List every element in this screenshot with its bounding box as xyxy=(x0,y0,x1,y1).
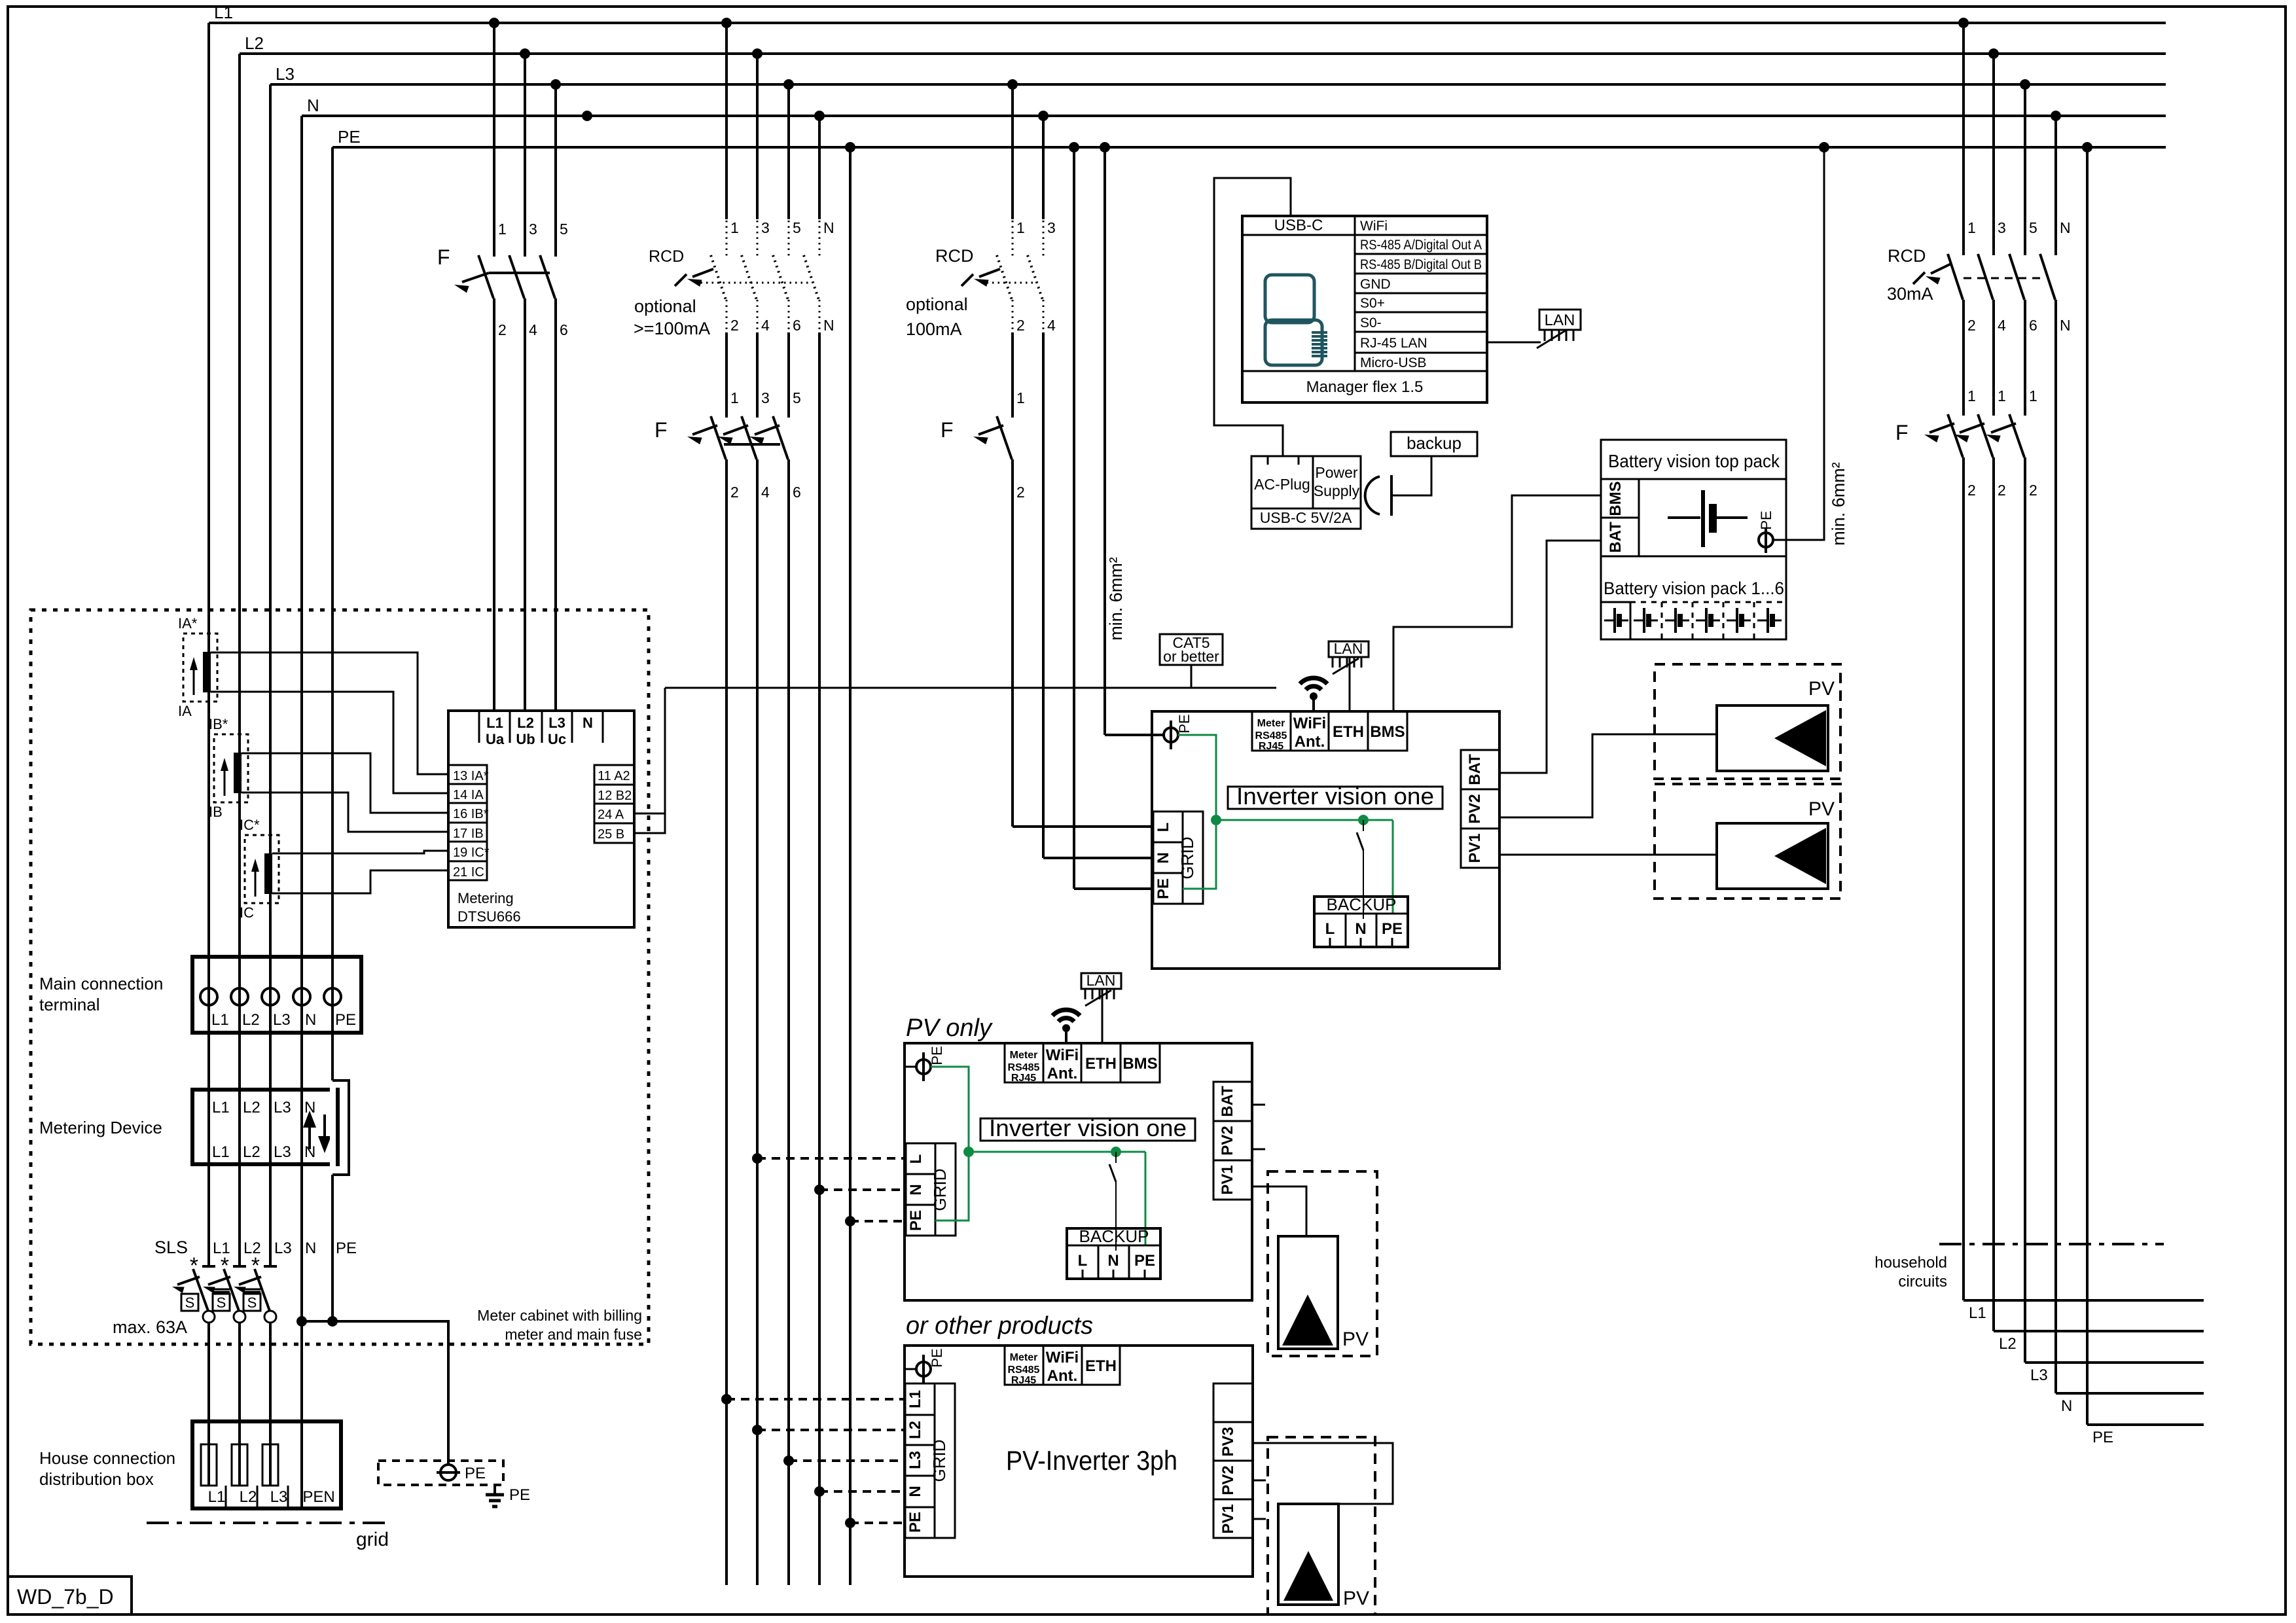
U3 PV-Inverter 3ph GRID cell L1 xyxy=(905,1383,935,1415)
current transformer IC dashed box xyxy=(245,835,279,903)
U2 Inverter vision one (PV only) GRID cell N xyxy=(906,1174,935,1205)
svg-text:5: 5 xyxy=(560,221,568,238)
F3 pole (terminals 1/2) xyxy=(997,416,1012,459)
svg-text:L3: L3 xyxy=(270,1488,288,1506)
svg-text:F: F xyxy=(1895,421,1909,444)
svg-text:2: 2 xyxy=(1016,317,1025,334)
wire battery PE to PE bus xyxy=(1773,147,1824,540)
bus N riser down to house connection box xyxy=(300,116,303,1508)
U2 Inverter vision one (PV only) terminal cell Meter RS485 RJ45 xyxy=(1005,1043,1043,1082)
svg-text:Supply: Supply xyxy=(1314,482,1360,499)
svg-text:1: 1 xyxy=(2029,387,2037,404)
Manager flex row RS-485 B/Digital Out B xyxy=(1355,273,1487,275)
F1 pole 3 (terminals 5/6) xyxy=(554,84,557,257)
RCD1 pole 3 (terminals 5/6) xyxy=(787,84,790,219)
U2 Inverter vision one (PV only) label box Inverter vision one xyxy=(980,1118,1195,1141)
svg-text:WiFi: WiFi xyxy=(1293,715,1326,732)
svg-text:optional: optional xyxy=(906,294,968,314)
svg-text:L2: L2 xyxy=(906,1421,924,1439)
SLS pole 2 actuator arrow xyxy=(208,1277,230,1285)
svg-text:N: N xyxy=(2060,219,2071,236)
svg-text:RS485: RS485 xyxy=(1008,1062,1040,1073)
svg-text:1: 1 xyxy=(1967,387,1976,404)
svg-text:1: 1 xyxy=(1967,219,1976,236)
svg-text:Meter cabinet with billing: Meter cabinet with billing xyxy=(477,1307,642,1324)
svg-text:DTSU666: DTSU666 xyxy=(457,908,521,925)
wire inverter PV1 to PV array 2 xyxy=(1499,854,1717,856)
wire RCD3 N output down to household circuits xyxy=(2054,300,2057,1393)
U1 Inverter vision one terminal cell ETH xyxy=(1329,711,1368,751)
Manager flex row GND xyxy=(1355,293,1487,294)
SLS switch pole L1 xyxy=(202,1265,215,1268)
house connection fuse L1 xyxy=(201,1444,217,1486)
AC plug prong ticks xyxy=(1267,456,1269,465)
U2 Inverter vision one (PV only) PE functional-earth clamp xyxy=(916,1060,931,1074)
PV array 4 (3ph) dashed box xyxy=(1268,1437,1375,1614)
household circuit branch PE xyxy=(2087,1423,2204,1426)
dashed wire N feeder to U2 GRID N xyxy=(819,1188,906,1191)
svg-text:12 B2: 12 B2 xyxy=(598,789,632,803)
PV array 3 (PV only) dashed box xyxy=(1268,1171,1377,1356)
junction dot PE/household xyxy=(2082,142,2092,152)
svg-text:PE: PE xyxy=(1382,920,1403,938)
svg-text:L2: L2 xyxy=(517,715,534,731)
wire metering 24 A to RS-485 link xyxy=(634,813,665,815)
svg-text:6: 6 xyxy=(2029,317,2037,334)
svg-text:2: 2 xyxy=(498,321,507,338)
PV array 4 module xyxy=(1278,1504,1338,1605)
F1 actuator arrow xyxy=(462,273,489,282)
svg-text:PV: PV xyxy=(1343,1588,1369,1609)
RCD1 pole 1 (terminals 1/2) xyxy=(725,23,728,219)
house connection fuse L2 xyxy=(232,1444,247,1486)
svg-text:BMS: BMS xyxy=(1122,1055,1157,1073)
svg-text:2: 2 xyxy=(2029,482,2037,499)
F2 pole 1 (terminals 1/2) xyxy=(711,416,726,459)
svg-text:WiFi: WiFi xyxy=(1360,219,1388,234)
svg-text:17 IB: 17 IB xyxy=(453,827,484,841)
wire F4 pole2 output to household L2 xyxy=(1992,457,1995,1331)
U3 PV-Inverter 3ph right cell PV2 xyxy=(1213,1461,1253,1499)
U2 Inverter vision one (PV only) BACKUP terminal ticks xyxy=(1082,1270,1084,1279)
svg-text:S0+: S0+ xyxy=(1360,296,1385,311)
svg-text:1: 1 xyxy=(1016,389,1025,406)
svg-text:or better: or better xyxy=(1163,648,1219,665)
SLS pole 1 contact circle xyxy=(203,1311,215,1323)
RCD2 pole 2 (terminals 3/4) xyxy=(1042,116,1045,219)
U1 Inverter vision one LAN connector box xyxy=(1329,641,1369,657)
svg-text:2: 2 xyxy=(730,317,739,334)
CAT5 or better box xyxy=(1160,634,1223,665)
main terminal circle at x=508 xyxy=(324,988,341,1005)
LAN connector box (manager) xyxy=(1539,310,1581,330)
U3 PV-Inverter 3ph PV1 stub xyxy=(1253,1518,1266,1520)
svg-text:Inverter vision one: Inverter vision one xyxy=(989,1115,1187,1141)
U3 PV-Inverter 3ph GRID cell N xyxy=(905,1476,935,1507)
U1 Inverter vision one backup transfer switch xyxy=(1363,820,1364,831)
svg-text:2: 2 xyxy=(1967,317,1976,334)
svg-text:4: 4 xyxy=(761,484,770,501)
bus L2 horizontal xyxy=(240,52,2166,55)
Battery assembly outer box xyxy=(1601,440,1786,639)
svg-text:Micro-USB: Micro-USB xyxy=(1360,355,1427,370)
svg-text:WiFi: WiFi xyxy=(1046,1349,1079,1366)
main terminal circle at x=366 xyxy=(231,988,248,1005)
wire RCD1 outputs to F2 inputs xyxy=(725,332,728,418)
RCD3 pole 4 (terminals N/N) xyxy=(2054,116,2057,255)
RCD1 trip arrow xyxy=(692,269,713,277)
U2 Inverter vision one (PV only) right cell PV1 xyxy=(1213,1160,1252,1200)
bus PE riser down to metering device bypass xyxy=(331,147,334,1080)
svg-text:BAT: BAT xyxy=(1219,1086,1236,1117)
junction dot L3/RCD2 xyxy=(1007,79,1018,90)
svg-text:Power: Power xyxy=(1315,464,1358,481)
F2 pole 1 actuator arrow xyxy=(692,425,717,435)
svg-text:4: 4 xyxy=(1047,317,1056,334)
house connection fuse L3 xyxy=(262,1444,278,1486)
svg-text:PV1: PV1 xyxy=(1219,1165,1236,1194)
svg-text:Ant.: Ant. xyxy=(1047,1367,1078,1385)
U1 Inverter vision one green PE wire to BACKUP PE xyxy=(1392,820,1394,914)
svg-text:RS485: RS485 xyxy=(1008,1364,1040,1376)
SLS pole 3 actuator arrow xyxy=(239,1277,261,1285)
svg-text:WD_7b_D: WD_7b_D xyxy=(17,1585,114,1609)
U1 Inverter vision one GRID cell L xyxy=(1153,811,1183,842)
svg-text:IA*: IA* xyxy=(178,615,198,632)
svg-text:SLS: SLS xyxy=(154,1238,188,1257)
wire RCD2 pole1 output to F3 xyxy=(1011,332,1014,418)
battery PE clamp xyxy=(1759,533,1773,547)
svg-text:ETH: ETH xyxy=(1333,723,1364,741)
svg-text:L1: L1 xyxy=(211,1011,229,1029)
svg-text:min. 6mm²: min. 6mm² xyxy=(1829,462,1848,546)
svg-text:PE: PE xyxy=(509,1486,530,1504)
U1 Inverter vision one wire LAN to ETH xyxy=(1349,657,1351,711)
bus L3 horizontal xyxy=(270,83,2166,86)
U2 Inverter vision one (PV only) BACKUP cell dividers xyxy=(1098,1245,1100,1279)
wire RCD2 pole2 (N) output down to inverter GRID N xyxy=(1042,332,1045,858)
svg-text:Main connection: Main connection xyxy=(39,974,163,993)
dashed wire L3 feeder to U3 GRID L3 xyxy=(789,1459,905,1462)
Manager flex row RJ-45 LAN xyxy=(1355,352,1487,354)
svg-text:GRID: GRID xyxy=(929,1440,949,1482)
svg-text:RJ45: RJ45 xyxy=(1011,1073,1036,1084)
U1 Inverter vision one right cell PV2 xyxy=(1461,789,1499,829)
U2 Inverter vision one (PV only) GRID cell PE xyxy=(906,1205,935,1236)
earth clamp PE circle xyxy=(440,1465,456,1480)
svg-text:PV only: PV only xyxy=(906,1014,993,1042)
svg-text:L: L xyxy=(1078,1252,1088,1270)
RCD2 trip tick xyxy=(961,274,973,286)
svg-text:L3: L3 xyxy=(274,1099,291,1116)
U1 Inverter vision one green junction dot left xyxy=(1211,815,1221,825)
U2 Inverter vision one (PV only) wire LAN to ETH xyxy=(1102,989,1103,1043)
F2 pole 3 actuator arrow xyxy=(755,425,780,435)
battery pack cell symbol 4 xyxy=(1696,620,1705,622)
svg-text:L1: L1 xyxy=(212,1143,230,1161)
U3 PV-Inverter 3ph PE functional-earth clamp xyxy=(916,1362,931,1376)
U1 Inverter vision one BACKUP terminal block xyxy=(1314,897,1408,947)
svg-text:13 IA*: 13 IA* xyxy=(453,769,489,783)
PE bypass around metering device xyxy=(332,1080,349,1175)
svg-text:max. 63A: max. 63A xyxy=(113,1317,187,1337)
svg-text:Battery vision top pack: Battery vision top pack xyxy=(1608,451,1780,471)
battery top pack bottom divider xyxy=(1601,556,1786,558)
svg-text:2: 2 xyxy=(730,484,739,501)
svg-text:L1: L1 xyxy=(486,715,503,731)
Manager flex 1.5 outer box xyxy=(1242,216,1487,402)
RCD1 linkage dotted line xyxy=(695,282,812,284)
wire CT IB to metering 17 xyxy=(242,793,448,832)
svg-text:L3: L3 xyxy=(273,1011,291,1029)
svg-text:N: N xyxy=(305,1240,316,1257)
bus N horizontal xyxy=(302,115,2166,117)
svg-text:N: N xyxy=(1107,1252,1119,1270)
current transformer IA dashed box xyxy=(183,633,217,702)
battery terminal cell BMS xyxy=(1601,479,1639,518)
svg-text:Meter: Meter xyxy=(1010,1352,1038,1363)
F4 pole 1 (terminals 1/2) xyxy=(1948,414,1963,457)
inverter U3 PV-Inverter 3ph box xyxy=(905,1346,1253,1577)
SLS pole 3 contact circle xyxy=(264,1311,276,1323)
F4 pole 3 actuator arrow xyxy=(1991,423,2016,433)
svg-text:PV2: PV2 xyxy=(1219,1126,1236,1155)
U2 Inverter vision one (PV only) WiFi antenna symbol xyxy=(1065,1031,1067,1043)
wire PE down to bond point xyxy=(331,1175,334,1321)
bus L2 riser down to SLS xyxy=(238,54,241,1266)
svg-text:6: 6 xyxy=(560,321,568,338)
svg-text:3: 3 xyxy=(1998,219,2006,236)
wire USB-C power loop (manager to power supply) xyxy=(1214,178,1291,456)
current transformer IB core bar xyxy=(234,753,242,793)
wire RS-485 meter link (metering to inverter) xyxy=(665,687,1276,689)
U1 Inverter vision one right cell BAT xyxy=(1461,750,1499,789)
junction dot L2/RCD1 xyxy=(752,48,762,59)
svg-text:PEN: PEN xyxy=(302,1488,334,1506)
svg-text:S: S xyxy=(217,1294,226,1311)
junction dot feeder N / U2 N xyxy=(814,1185,825,1195)
svg-text:PE: PE xyxy=(1176,714,1193,733)
wire metering 25 B to RS-485 link xyxy=(634,688,665,833)
svg-text:30mA: 30mA xyxy=(1887,284,1933,304)
battery pack dashed divider 1 xyxy=(1661,602,1663,639)
battery cell symbol (top pack) xyxy=(1668,516,1700,519)
wire SLS outputs to house connection box xyxy=(207,1323,210,1486)
Battery vision top pack header divider xyxy=(1601,478,1786,480)
U2 Inverter vision one (PV only) green PE wire to BACKUP PE xyxy=(1145,1152,1147,1245)
svg-text:11 A2: 11 A2 xyxy=(598,769,630,783)
svg-text:5: 5 xyxy=(2029,219,2037,236)
Metering Device box xyxy=(192,1090,338,1164)
battery terminal cell BAT xyxy=(1601,518,1639,556)
F1 pole 1 (terminals 1/2) xyxy=(493,23,495,257)
svg-text:PV1: PV1 xyxy=(1466,833,1484,863)
svg-text:Ub: Ub xyxy=(516,731,535,747)
Manager flex row WiFi xyxy=(1355,234,1487,236)
junction dot L3/RCD30 xyxy=(2020,79,2030,90)
PV array 2 (dashed box) xyxy=(1655,784,1840,899)
SLS linkage double lines xyxy=(213,1289,230,1291)
Manager flex footer divider xyxy=(1242,370,1487,372)
svg-text:BAT: BAT xyxy=(1607,522,1624,553)
U3 PV-Inverter 3ph GRID cell L3 xyxy=(905,1445,935,1476)
svg-text:1: 1 xyxy=(730,219,739,236)
F2 pole 2 actuator arrow xyxy=(723,425,748,435)
svg-text:meter and main fuse: meter and main fuse xyxy=(505,1326,642,1343)
SLS switch pole L3 xyxy=(264,1265,277,1268)
svg-text:24 A: 24 A xyxy=(598,808,624,822)
dashed wire L2 feeder to U3 GRID L2 xyxy=(757,1429,905,1431)
junction dot L1/RCD30 xyxy=(1958,18,1969,28)
wire inverter PV2 to PV array 1 xyxy=(1499,734,1717,817)
wire U3 PV3 to PV array 4 xyxy=(1253,1443,1393,1504)
LAN connector comb (manager) xyxy=(1544,330,1546,341)
PV array 3 module xyxy=(1278,1236,1338,1349)
svg-text:PE: PE xyxy=(2092,1429,2113,1446)
svg-text:or other products: or other products xyxy=(906,1312,1093,1340)
U2 Inverter vision one (PV only) green PE wire horizontal xyxy=(969,1151,1145,1153)
svg-text:IB: IB xyxy=(209,804,223,820)
svg-text:>=100mA: >=100mA xyxy=(634,319,710,338)
svg-text:1: 1 xyxy=(730,389,739,406)
F2 pole 2 (terminals 3/4) xyxy=(742,416,757,459)
bus L1 riser down to SLS xyxy=(207,23,210,1266)
Manager flex row S0- xyxy=(1355,331,1487,333)
U1 Inverter vision one green PE wire horizontal xyxy=(1216,819,1393,821)
wire CT IC to metering 21 xyxy=(272,870,448,893)
junction dot PE/feeder xyxy=(845,142,855,152)
svg-text:N: N xyxy=(823,219,834,236)
U2 Inverter vision one (PV only) BAT stub xyxy=(1252,1104,1265,1106)
wire RCD1 N output down to PV inverters xyxy=(818,332,821,1585)
bus L1 horizontal xyxy=(209,22,2166,24)
U2 Inverter vision one (PV only) terminal cell WiFi Ant. xyxy=(1043,1043,1081,1082)
wire U2 PV1 to PV array 3 xyxy=(1252,1186,1306,1236)
svg-text:BACKUP: BACKUP xyxy=(1327,895,1397,914)
svg-text:USB-C: USB-C xyxy=(1274,217,1323,234)
svg-text:Uc: Uc xyxy=(548,731,566,747)
wire RCD3 outputs to F4 xyxy=(1962,300,1965,416)
U2 Inverter vision one (PV only) green junction dot right xyxy=(1111,1147,1121,1157)
Manager flex column divider xyxy=(1354,216,1356,371)
svg-text:25 B: 25 B xyxy=(598,827,624,842)
svg-text:100mA: 100mA xyxy=(906,319,962,339)
Manager flex row RS-485 A/Digital Out A xyxy=(1355,253,1487,255)
wire RJ-45 LAN to LAN connector xyxy=(1487,342,1541,344)
SLS pole 1 actuator arrow xyxy=(177,1277,200,1285)
junction dot L3/F1 xyxy=(550,79,561,90)
svg-text:N: N xyxy=(907,1184,925,1195)
svg-text:2: 2 xyxy=(1016,484,1025,501)
junction dot PE bond xyxy=(327,1316,338,1327)
title block box xyxy=(8,1577,132,1614)
svg-text:2: 2 xyxy=(1998,482,2006,499)
svg-text:L3: L3 xyxy=(276,64,295,84)
metering terminal 14 IA xyxy=(448,783,487,785)
svg-text:4: 4 xyxy=(1998,317,2006,334)
F2 mechanical link line xyxy=(724,443,780,446)
meter cabinet dashed border xyxy=(31,610,649,1344)
svg-text:N: N xyxy=(2061,1397,2072,1415)
junction dot feeder L2 / U3 L2 xyxy=(752,1425,762,1435)
RCD3 pole 2 (terminals 3/4) xyxy=(1992,54,1995,255)
wire inverter BAT to battery BAT xyxy=(1499,541,1601,773)
svg-text:PV-Inverter 3ph: PV-Inverter 3ph xyxy=(1006,1445,1177,1476)
svg-text:IC*: IC* xyxy=(240,817,260,833)
svg-text:PE: PE xyxy=(338,127,361,147)
U2 Inverter vision one (PV only) green junction dot left xyxy=(963,1147,974,1157)
svg-text:BMS: BMS xyxy=(1607,481,1624,516)
svg-text:Metering Device: Metering Device xyxy=(39,1118,162,1137)
backup box xyxy=(1391,432,1477,456)
svg-text:3: 3 xyxy=(761,389,770,406)
metering terminal 25 B xyxy=(594,823,634,825)
svg-text:RJ-45 LAN: RJ-45 LAN xyxy=(1360,336,1427,351)
inverter U1 Inverter vision one box xyxy=(1152,711,1499,969)
U2 Inverter vision one (PV only) GRID label column xyxy=(935,1143,956,1236)
svg-text:4: 4 xyxy=(529,321,537,338)
House connection distribution box xyxy=(192,1421,341,1508)
svg-text:PE: PE xyxy=(335,1011,356,1029)
main terminal circle at x=413 xyxy=(262,988,279,1005)
current transformer IA arrow xyxy=(193,666,195,695)
svg-text:L2: L2 xyxy=(1999,1335,2017,1353)
battery pack cell symbol 1 xyxy=(1604,620,1613,622)
Manager flex header divider xyxy=(1242,234,1487,236)
svg-text:*: * xyxy=(190,1253,198,1278)
U1 Inverter vision one GRID cell N xyxy=(1153,842,1183,873)
svg-text:PE: PE xyxy=(1155,878,1172,899)
junction dot PE/battery xyxy=(1819,142,1829,152)
junction dot feeder L1 / U3 L1 xyxy=(721,1394,732,1404)
bus L3 riser down to SLS xyxy=(269,84,272,1266)
wire CAT5 stem xyxy=(1191,665,1193,688)
F1 pole 2 (terminals 3/4) xyxy=(524,54,526,257)
svg-text:S: S xyxy=(247,1294,257,1311)
current transformer IA core bar xyxy=(203,652,211,692)
svg-text:1: 1 xyxy=(1016,219,1025,236)
svg-text:IB*: IB* xyxy=(209,716,228,732)
svg-text:PE: PE xyxy=(465,1465,486,1482)
junction dot PE/grid-pe xyxy=(1069,142,1079,152)
svg-text:3: 3 xyxy=(529,221,537,238)
U2 Inverter vision one (PV only) LAN connector box xyxy=(1081,973,1121,989)
svg-text:Ant.: Ant. xyxy=(1295,733,1325,751)
F4 pole 1 actuator arrow xyxy=(1929,423,1954,433)
svg-text:L2: L2 xyxy=(243,1240,261,1257)
svg-text:PV1: PV1 xyxy=(1219,1504,1237,1533)
F4 pole 2 (terminals 1/2) xyxy=(1978,414,1993,457)
F2 pole 3 (terminals 5/6) xyxy=(773,416,788,459)
current transformer IC core bar xyxy=(264,853,272,894)
svg-text:L1: L1 xyxy=(1969,1304,1986,1322)
metering terminal 24 A xyxy=(594,803,634,805)
battery pack dashed divider 4 xyxy=(1753,602,1755,639)
junction dot L2/RCD30 xyxy=(1988,48,1999,59)
household circuit branch N xyxy=(2056,1392,2204,1395)
svg-text:RJ45: RJ45 xyxy=(1011,1375,1036,1386)
svg-text:terminal: terminal xyxy=(39,995,99,1014)
SLS switch pole L2 xyxy=(233,1265,246,1268)
household circuit branch L2 xyxy=(1994,1330,2204,1332)
U3 PV-Inverter 3ph PV2 stub xyxy=(1253,1480,1266,1482)
household circuits boundary dash-dot line xyxy=(1939,1243,2164,1245)
svg-text:4: 4 xyxy=(761,317,770,334)
svg-text:N: N xyxy=(823,317,834,334)
battery pack cell 1 (solid) xyxy=(1630,602,1632,639)
svg-text:L: L xyxy=(1325,920,1335,938)
svg-text:L2: L2 xyxy=(245,33,264,53)
